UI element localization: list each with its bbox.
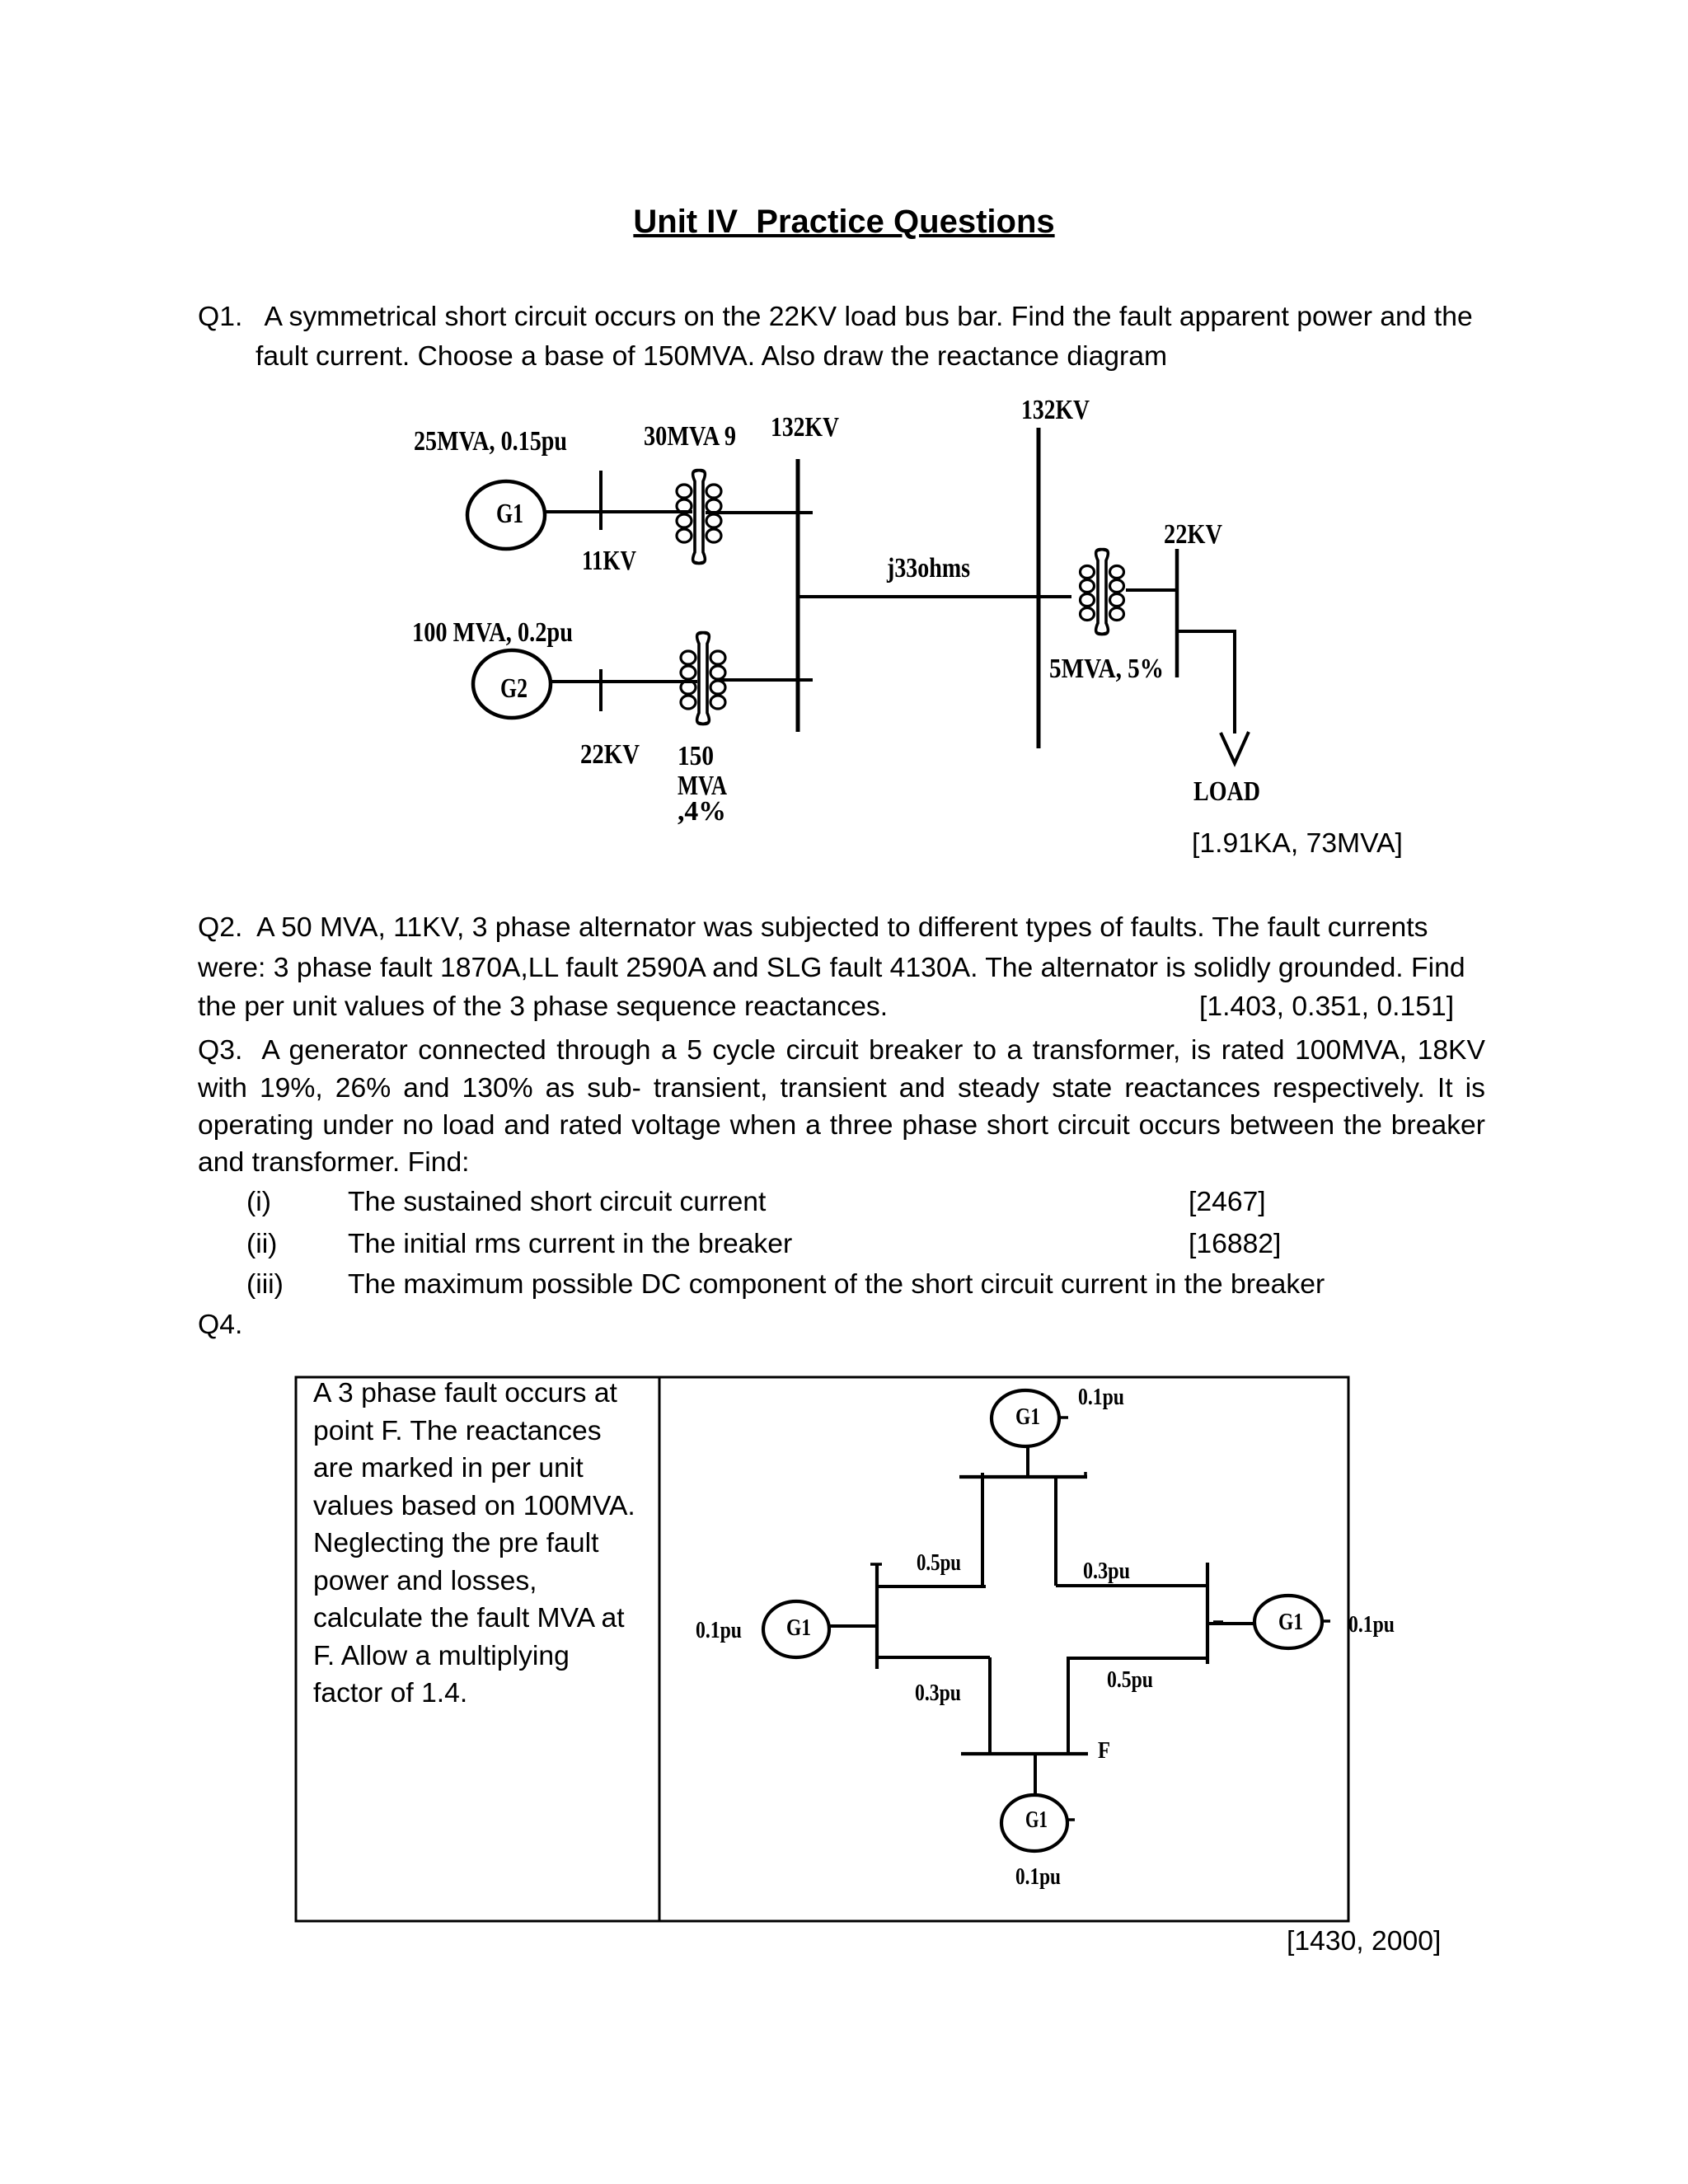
svg-text:G1: G1 bbox=[1025, 1807, 1048, 1833]
wire upper-right arm bbox=[1056, 1584, 1207, 1587]
svg-text:22KV: 22KV bbox=[580, 739, 640, 770]
svg-text:11KV: 11KV bbox=[582, 546, 636, 576]
table divider bbox=[659, 1377, 661, 1921]
svg-text:,4%: ,4% bbox=[678, 796, 726, 827]
table border bbox=[296, 1377, 1348, 1921]
svg-text:G1: G1 bbox=[496, 499, 523, 529]
svg-text:0.3pu: 0.3pu bbox=[915, 1680, 961, 1706]
generator G1 top bbox=[992, 1390, 1059, 1446]
Q1 answer bbox=[1192, 823, 1403, 863]
node tick 11KV bbox=[599, 471, 603, 530]
tick on right G1 wire bbox=[1213, 1620, 1223, 1624]
svg-text:132KV: 132KV bbox=[771, 412, 839, 443]
wire bottom bus to bottom G1 bbox=[1034, 1754, 1037, 1795]
generator G1 bottom bbox=[1001, 1795, 1067, 1851]
wire G1 to transformer T1 bbox=[545, 510, 692, 513]
stub top G1 bbox=[1059, 1416, 1068, 1419]
svg-text:22KV: 22KV bbox=[1164, 519, 1222, 550]
svg-text:0.1pu: 0.1pu bbox=[696, 1618, 742, 1643]
load arrow head bbox=[1221, 732, 1249, 763]
Q2 paragraph bbox=[198, 907, 1428, 947]
svg-text:0.5pu: 0.5pu bbox=[1107, 1667, 1153, 1693]
bus 132KV right bbox=[1037, 428, 1041, 748]
svg-text:0.1pu: 0.1pu bbox=[1015, 1864, 1061, 1890]
wire lower-left arm bbox=[877, 1656, 990, 1659]
bus right bbox=[1206, 1563, 1209, 1664]
Q4 box left-cell text bbox=[313, 1375, 635, 1713]
bus bottom bbox=[961, 1752, 1088, 1755]
svg-text:0.5pu: 0.5pu bbox=[917, 1550, 961, 1576]
wire top-left branch bbox=[981, 1473, 984, 1586]
node tick 22KV bbox=[599, 669, 603, 711]
svg-text:132KV: 132KV bbox=[1021, 395, 1090, 425]
generator G1 right bbox=[1254, 1596, 1322, 1648]
svg-text:j33ohms: j33ohms bbox=[886, 553, 970, 583]
wire lower-right branch bbox=[1067, 1658, 1070, 1754]
svg-text:LOAD: LOAD bbox=[1193, 776, 1260, 807]
Q3 paragraph (justified) bbox=[198, 1030, 1485, 1070]
wire right G1 to right bus bbox=[1207, 1622, 1254, 1625]
generator G1 left bbox=[763, 1601, 829, 1657]
wire load branch bbox=[1177, 631, 1235, 733]
bus left bbox=[870, 1563, 882, 1669]
stub bottom G1 bbox=[1067, 1818, 1075, 1821]
bus top bbox=[959, 1472, 1087, 1477]
svg-text:G1: G1 bbox=[1015, 1404, 1040, 1430]
svg-text:G2: G2 bbox=[500, 673, 527, 704]
wire G2 to transformer T2 bbox=[551, 680, 697, 683]
svg-text:G1: G1 bbox=[786, 1615, 811, 1641]
svg-text:F: F bbox=[1098, 1738, 1110, 1764]
svg-text:0.1pu: 0.1pu bbox=[1078, 1385, 1124, 1410]
wire upper-left arm bbox=[877, 1585, 986, 1588]
title bbox=[0, 202, 1688, 241]
svg-text:150: 150 bbox=[678, 741, 714, 771]
Q3 items bbox=[246, 1182, 271, 1221]
bus 22KV right bbox=[1175, 549, 1179, 677]
transformer T2 bbox=[681, 633, 725, 724]
wire left G1 to left bus bbox=[829, 1624, 877, 1628]
generator G2 bbox=[473, 650, 551, 718]
wire T2 to bus1 bbox=[719, 678, 813, 682]
transformer T3 bbox=[1081, 550, 1124, 635]
svg-text:100 MVA, 0.2pu: 100 MVA, 0.2pu bbox=[412, 617, 573, 648]
svg-text:30MVA 9: 30MVA 9 bbox=[644, 421, 736, 452]
wire j33ohms line bbox=[798, 595, 1071, 598]
wire lower-left branch bbox=[988, 1657, 992, 1754]
wire lower-right arm bbox=[1067, 1657, 1207, 1660]
svg-text:25MVA, 0.15pu: 25MVA, 0.15pu bbox=[414, 426, 567, 457]
wire T1 to bus1 bbox=[706, 511, 813, 514]
Q1 paragraph bbox=[198, 297, 1473, 336]
transformer T1 bbox=[677, 471, 721, 564]
svg-text:G1: G1 bbox=[1278, 1610, 1303, 1635]
stub right G1 bbox=[1322, 1619, 1330, 1623]
svg-text:5MVA, 5%: 5MVA, 5% bbox=[1049, 654, 1164, 684]
bus 132KV left bbox=[796, 459, 800, 732]
wire top G1 to top bus bbox=[1026, 1446, 1029, 1477]
Q4 answer bbox=[1287, 1921, 1441, 1961]
wire top-right branch bbox=[1054, 1477, 1057, 1586]
svg-text:0.3pu: 0.3pu bbox=[1083, 1558, 1130, 1584]
wire T3 to bus 22KV bbox=[1126, 588, 1177, 592]
generator G1 bbox=[467, 481, 545, 549]
svg-text:0.1pu: 0.1pu bbox=[1348, 1612, 1395, 1638]
